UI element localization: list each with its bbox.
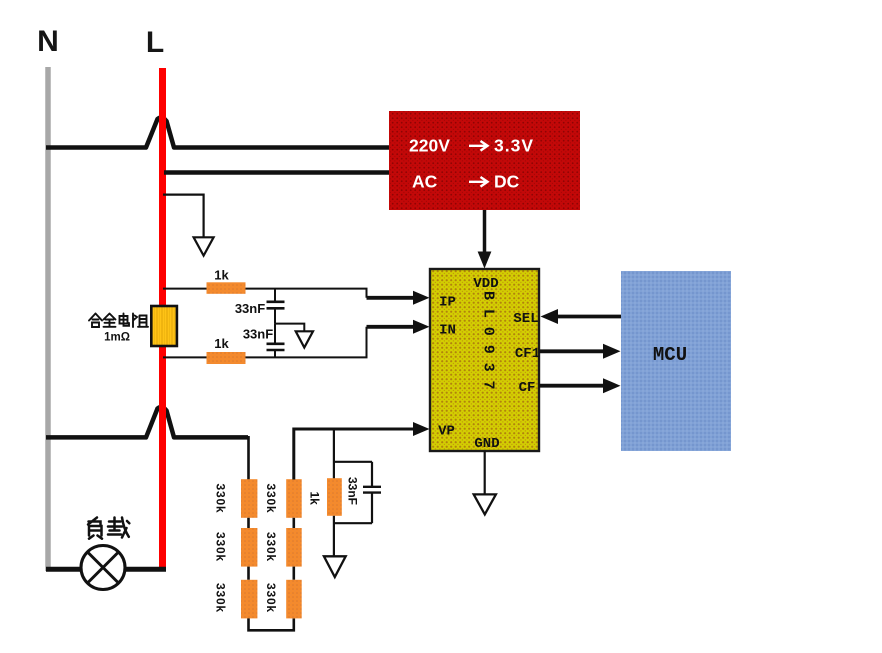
ground G2 [296, 331, 313, 347]
arrowhead VP into chip [413, 422, 430, 436]
svg-text:MCU: MCU [653, 344, 687, 366]
wire L to AC-DC module [164, 170, 389, 175]
sense resistor RS alloy 1mOhm [151, 306, 177, 346]
wire CF1 chip to MCU [539, 349, 604, 353]
svg-text:33nF: 33nF [235, 301, 265, 316]
svg-text:33nF: 33nF [346, 477, 360, 505]
arrow AC to DC [469, 177, 488, 187]
wire GND chip to ground [484, 451, 486, 494]
svg-text:330k: 330k [214, 583, 228, 613]
wire N to divider (hump over L) [46, 407, 248, 437]
label fu-zai (load) [88, 518, 129, 539]
IC U1 BL0937 [430, 269, 539, 451]
resistor R3 330k [241, 479, 257, 518]
wire L through R2 to IN [163, 327, 367, 358]
power module PS1 220V-3.3V AC-DC [389, 111, 580, 210]
arrowhead CF into MCU [603, 378, 621, 393]
svg-text:VP: VP [438, 424, 455, 440]
svg-text:330k: 330k [214, 484, 228, 514]
resistor R2 1k [207, 352, 246, 364]
svg-text:33nF: 33nF [243, 327, 273, 342]
wire VDD supply to chip [483, 210, 487, 254]
arrowhead IP into chip [413, 291, 430, 305]
wire R7 to R8 [292, 567, 295, 580]
svg-text:330k: 330k [214, 532, 228, 562]
resistor R6 330k [286, 479, 302, 518]
capacitor C1 33nF [267, 289, 285, 324]
lamp load LOAD1 [81, 546, 125, 590]
wire R9 bottom to C3 bottom [334, 522, 372, 524]
wire R4 to R5 [247, 567, 250, 580]
wire N to lamp [46, 567, 90, 572]
resistor R8 330k [286, 580, 302, 619]
ground G3 [474, 494, 496, 514]
wire chain2 top to VP node [294, 429, 415, 480]
wire cap midpoint to ground [275, 324, 304, 331]
resistor R5 330k [241, 580, 257, 619]
svg-text:1k: 1k [214, 268, 229, 283]
svg-text:1mΩ: 1mΩ [104, 332, 130, 344]
svg-text:330k: 330k [264, 583, 278, 613]
svg-text:3.3V: 3.3V [494, 136, 534, 156]
svg-text:IP: IP [439, 295, 456, 311]
capacitor C2 33nF [267, 324, 285, 358]
svg-text:SEL: SEL [513, 311, 538, 327]
wire L through R1 to IP [163, 289, 367, 298]
arrowhead IN into chip [413, 320, 430, 334]
svg-text:IN: IN [439, 323, 456, 339]
wire R9 to ground [333, 516, 335, 556]
wire R3 to R4 [247, 518, 250, 528]
ground G4 [324, 556, 346, 577]
svg-text:VDD: VDD [473, 276, 498, 292]
MCU U2 [621, 271, 731, 451]
arrowhead CF1 into MCU [603, 344, 621, 359]
resistor R4 330k [241, 528, 257, 567]
svg-text:AC: AC [412, 172, 438, 192]
svg-text:BL0937: BL0937 [480, 291, 497, 398]
svg-text:330k: 330k [264, 532, 278, 562]
node L rail [159, 68, 166, 569]
wire IP arrow segment [367, 296, 417, 300]
svg-text:330k: 330k [264, 484, 278, 514]
wire IN arrow segment [367, 325, 417, 329]
wire VP node down to R9 [333, 429, 335, 479]
arrowhead SEL into chip [541, 309, 559, 324]
svg-text:220V: 220V [409, 136, 450, 156]
svg-text:DC: DC [494, 172, 520, 192]
arrow 220V to 3.3V [469, 141, 488, 151]
wire bottom U chain1 to chain2 [249, 618, 294, 630]
wire R9/C3 top junction [334, 461, 372, 463]
wire CF chip to MCU [539, 384, 604, 388]
resistor R1 1k [207, 282, 246, 294]
svg-text:1k: 1k [308, 492, 322, 506]
svg-text:L: L [146, 26, 164, 59]
svg-text:N: N [37, 25, 59, 58]
svg-text:CF1: CF1 [515, 346, 540, 362]
wire SEL MCU to chip [556, 315, 621, 319]
svg-text:GND: GND [474, 436, 499, 452]
wire lamp to L [116, 567, 166, 572]
capacitor C3 33nF [363, 462, 381, 523]
wire R6 to R7 [292, 518, 295, 528]
node N rail [45, 67, 51, 571]
wire L tap to upper ground [163, 195, 204, 237]
arrowhead VDD into chip [478, 252, 492, 269]
resistor R7 330k [286, 528, 302, 567]
resistor R9 1k [327, 478, 342, 516]
svg-text:CF: CF [519, 380, 536, 396]
wire N to AC-DC module (hump over L) [46, 118, 389, 148]
wire divider drop chain1 [247, 436, 250, 480]
ground G1 [194, 237, 214, 255]
label he-jin-dian-zu (alloy resistor) [89, 314, 148, 328]
svg-text:1k: 1k [214, 336, 229, 351]
